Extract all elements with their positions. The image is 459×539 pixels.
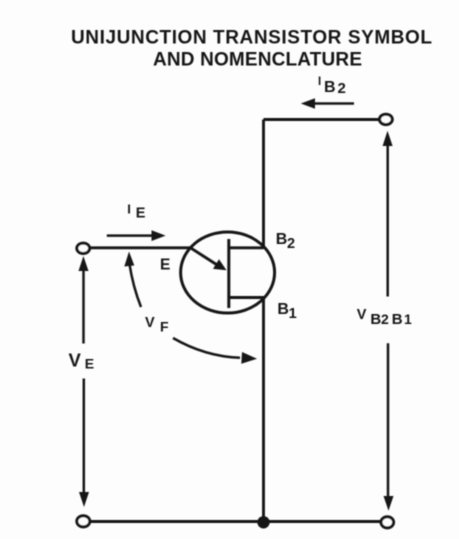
- svg-text:2: 2: [287, 236, 295, 252]
- wire: B2 stub: [229, 246, 264, 249]
- svg-text:V: V: [145, 315, 155, 331]
- dimension arrow VE (double headed vertical, left): [79, 256, 90, 507]
- svg-text:I: I: [127, 202, 131, 217]
- svg-text:1: 1: [404, 311, 412, 327]
- svg-text:B: B: [392, 311, 403, 328]
- svg-text:E: E: [85, 356, 94, 372]
- label VE: [69, 350, 95, 372]
- transistor Q1 emitter arrow: [191, 248, 227, 270]
- svg-text:2: 2: [381, 311, 389, 327]
- svg-text:V: V: [357, 307, 367, 323]
- wire: right vertical lower (B1 lead): [262, 298, 265, 522]
- label VF: [145, 315, 169, 335]
- label B1 (pin): [277, 301, 296, 322]
- current arrow IB2: [301, 98, 354, 109]
- terminal: emitter (open circle): [77, 243, 90, 253]
- measurement arc VF (forward voltage): [124, 252, 257, 364]
- transistor Q1 (unijunction transistor) body: [181, 232, 275, 313]
- svg-text:E: E: [160, 257, 170, 274]
- label IE: [127, 202, 146, 222]
- dimension arrow VB2B1 (double headed vertical, right): [383, 131, 394, 511]
- svg-text:AND NOMENCLATURE: AND NOMENCLATURE: [153, 50, 362, 71]
- svg-text:V: V: [69, 350, 82, 371]
- svg-text:UNIJUNCTION TRANSISTOR SYMBOL: UNIJUNCTION TRANSISTOR SYMBOL: [71, 28, 432, 49]
- svg-text:I: I: [318, 76, 321, 88]
- svg-text:E: E: [136, 206, 146, 222]
- junction dot at B1 node: [257, 516, 269, 528]
- svg-text:B: B: [276, 231, 288, 248]
- transistor Q1 base bar: [227, 239, 230, 308]
- title: [71, 28, 432, 71]
- label IB2: [318, 76, 346, 97]
- svg-text:B: B: [370, 311, 381, 328]
- terminal: bottom left (open circle): [77, 516, 90, 527]
- wire: emitter lead: [91, 246, 193, 249]
- label VB2B1: [357, 307, 412, 328]
- label B2 (pin): [276, 231, 295, 252]
- wire: bottom horizontal: [90, 520, 382, 523]
- terminal: B2 top right (open circle): [380, 114, 393, 124]
- wire: top horizontal to B2 terminal: [264, 118, 380, 121]
- current arrow IE: [107, 230, 166, 241]
- svg-text:B: B: [277, 301, 289, 318]
- svg-text:2: 2: [338, 80, 346, 97]
- svg-text:B: B: [324, 79, 336, 96]
- wire: right vertical upper (B2 lead): [262, 120, 265, 248]
- svg-text:1: 1: [289, 306, 297, 322]
- wire: B1 stub: [229, 296, 265, 299]
- svg-text:F: F: [160, 319, 169, 335]
- terminal: bottom right (open circle): [381, 517, 394, 528]
